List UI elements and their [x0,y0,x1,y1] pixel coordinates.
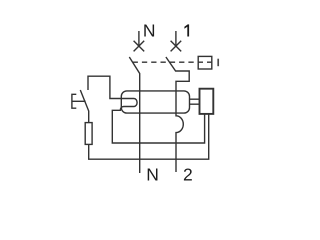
svg-text:N: N [146,165,159,185]
svg-text:N: N [143,21,156,41]
svg-text:2: 2 [183,165,193,185]
